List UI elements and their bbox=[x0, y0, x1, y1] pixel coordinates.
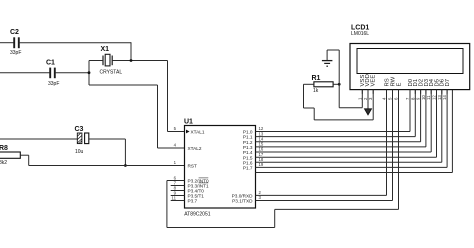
svg-text:13: 13 bbox=[437, 95, 442, 100]
svg-text:P3.1/TXD: P3.1/TXD bbox=[232, 199, 253, 204]
wire ground to VSS bbox=[327, 49, 339, 51]
node junction R1/gnd bbox=[338, 83, 341, 86]
svg-text:8k2: 8k2 bbox=[0, 160, 7, 166]
wire bus row bbox=[256, 172, 453, 174]
wire crystal right pin bbox=[112, 60, 167, 62]
wire R1 right to ground net bbox=[333, 83, 339, 85]
wire P1.4 to LCD D4 bbox=[256, 151, 432, 153]
resistor R1 bbox=[314, 82, 333, 87]
wire R8 to RST bbox=[20, 154, 28, 156]
wire stub P3.7 bbox=[171, 200, 185, 202]
pin XTAL1 bbox=[186, 130, 190, 134]
svg-text:R8: R8 bbox=[0, 145, 8, 152]
wire to XTAL1 pin bbox=[167, 61, 169, 132]
svg-text:11: 11 bbox=[172, 195, 177, 200]
svg-text:P1.7: P1.7 bbox=[243, 166, 253, 171]
svg-text:R1: R1 bbox=[312, 75, 321, 82]
ground bbox=[326, 50, 328, 61]
svg-text:D7: D7 bbox=[445, 79, 451, 87]
svg-text:XTAL2: XTAL2 bbox=[188, 146, 202, 151]
wire stub P3.3 bbox=[171, 185, 185, 187]
capacitor C2 bbox=[0, 42, 14, 44]
svg-text:U1: U1 bbox=[184, 119, 193, 126]
svg-text:AT89C2051: AT89C2051 bbox=[184, 212, 211, 218]
wire R1 left to VEE bbox=[304, 83, 314, 85]
wire P1.1 to LCD D1 bbox=[256, 136, 416, 138]
svg-text:11: 11 bbox=[426, 95, 431, 100]
svg-text:P3.7: P3.7 bbox=[188, 199, 198, 204]
svg-text:LM016L: LM016L bbox=[351, 31, 369, 37]
wire P1.5 to LCD D5 bbox=[256, 156, 437, 158]
node junction C3/RST bbox=[124, 164, 127, 167]
wire C2 to XTAL1 net bbox=[19, 42, 131, 44]
svg-text:XTAL1: XTAL1 bbox=[191, 130, 205, 135]
svg-text:33pF: 33pF bbox=[10, 50, 21, 56]
wire RXD to LCD RS bbox=[256, 194, 387, 196]
svg-text:CRYSTAL: CRYSTAL bbox=[100, 70, 123, 76]
wire to XTAL2 pin bbox=[89, 84, 158, 86]
svg-text:19: 19 bbox=[259, 162, 264, 167]
svg-text:X1: X1 bbox=[101, 46, 110, 53]
wire VEE pin column bbox=[372, 90, 374, 120]
wire RST row bbox=[29, 165, 185, 167]
wire P1.0 to LCD D0 bbox=[256, 131, 411, 133]
power symbol VDD bbox=[367, 90, 369, 110]
wire P3.2 to LCD E bbox=[167, 180, 185, 182]
svg-text:E: E bbox=[396, 83, 402, 87]
capacitor C3 bbox=[0, 138, 77, 140]
svg-text:C3: C3 bbox=[75, 126, 84, 133]
wire LCD E column bbox=[398, 90, 400, 210]
svg-text:12: 12 bbox=[432, 95, 437, 100]
op-amp U1 body AT89C2051 bbox=[185, 126, 256, 209]
node junction C2/X1 right bbox=[130, 59, 133, 62]
wire P1.3 to LCD D3 bbox=[256, 146, 426, 148]
wire stub P3.4 bbox=[171, 190, 185, 192]
svg-text:C2: C2 bbox=[10, 29, 19, 36]
wire C1 to XTAL2 net bbox=[55, 72, 89, 74]
wire stub P3.5 bbox=[171, 195, 185, 197]
svg-text:33pF: 33pF bbox=[48, 81, 59, 87]
wire crystal left pin bbox=[89, 60, 103, 62]
svg-text:C1: C1 bbox=[46, 60, 55, 67]
svg-text:RST: RST bbox=[188, 164, 198, 169]
svg-text:1k: 1k bbox=[313, 88, 319, 94]
crystal X1 bbox=[102, 56, 104, 66]
svg-text:14: 14 bbox=[442, 95, 447, 100]
svg-text:10u: 10u bbox=[75, 149, 84, 155]
node junction C1/X1 left bbox=[88, 71, 91, 74]
wire TXD to LCD RW bbox=[256, 200, 393, 202]
resistor R8 bbox=[0, 152, 20, 158]
capacitor C1 bbox=[0, 72, 50, 74]
svg-text:VEE: VEE bbox=[370, 75, 376, 87]
svg-text:10: 10 bbox=[421, 95, 426, 100]
wire C3 to RST bbox=[89, 138, 126, 140]
wire P1.7 to LCD D7 bbox=[256, 166, 448, 168]
wire P1.2 to LCD D2 bbox=[256, 141, 421, 143]
wire P1.6 to LCD D6 bbox=[256, 161, 442, 163]
